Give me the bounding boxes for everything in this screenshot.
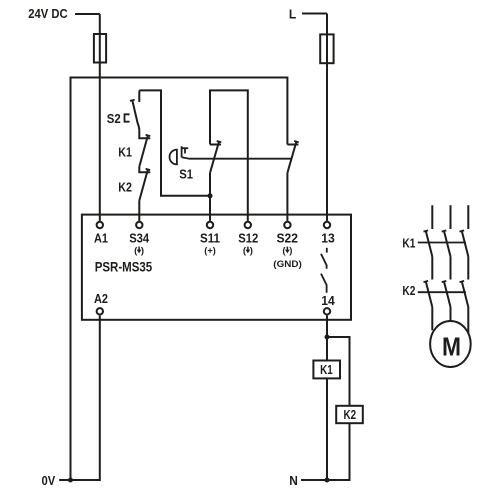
terminal S11 — [207, 222, 213, 228]
svg-text:): ) — [250, 246, 253, 257]
wire A2 to 0V — [59, 316, 100, 481]
svg-text:(+): (+) — [204, 246, 216, 257]
coil K2 — [336, 406, 363, 423]
svg-text:S34: S34 — [129, 231, 149, 245]
terminal A1 — [97, 222, 103, 228]
coil K1 — [313, 361, 340, 379]
wire 0V rail (left vertical + top horizontal to S22 branch) — [71, 78, 288, 481]
svg-text:(: ( — [243, 246, 247, 257]
svg-text:(: ( — [282, 246, 286, 257]
contact relay output 13-14 (two NO in series) — [321, 248, 327, 293]
svg-text:K1: K1 — [118, 145, 132, 160]
terminal S22 — [284, 222, 290, 228]
wire 14 down to K1 coil and N — [326, 316, 328, 481]
junction N — [325, 478, 330, 483]
svg-text:L: L — [289, 6, 296, 21]
wire phase lines middle — [432, 257, 468, 280]
contact K1 feedback NO — [139, 130, 150, 166]
wire S11-S12 jumper with S1 contact leg — [210, 90, 248, 221]
pushbutton actuator S1 — [170, 146, 189, 164]
relay PSR-MS35 box — [82, 215, 351, 320]
svg-text:A2: A2 — [94, 292, 108, 306]
terminal S34 — [136, 222, 142, 228]
svg-text:24V DC: 24V DC — [28, 6, 68, 21]
svg-text:): ) — [289, 246, 292, 257]
actuator E-stop bracket — [125, 114, 130, 121]
svg-text:K2: K2 — [344, 407, 357, 422]
contact S2 (E-stop NC) — [130, 90, 139, 130]
svg-text:S11: S11 — [200, 231, 220, 245]
junction S11 node — [208, 193, 213, 198]
wire L vertical to 13 — [326, 14, 328, 221]
terminal 13 — [324, 222, 330, 228]
svg-text:A1: A1 — [94, 231, 108, 245]
svg-text:PSR-MS35: PSR-MS35 — [95, 259, 153, 274]
svg-text:S1: S1 — [179, 167, 193, 182]
svg-text:K2: K2 — [118, 179, 132, 194]
contact K1 main poles — [424, 230, 469, 256]
contact K2 feedback NO — [139, 167, 150, 221]
contact S22 branch NO — [287, 141, 298, 221]
fuse F1 — [94, 34, 106, 63]
wire mechanical link S1 to contacts — [182, 157, 292, 158]
svg-text:): ) — [141, 246, 144, 257]
svg-text:M: M — [442, 334, 461, 362]
wire S2 chain top jumper to S11 node — [139, 90, 210, 195]
svg-text:14: 14 — [321, 294, 335, 308]
motor M — [430, 321, 471, 367]
svg-text:N: N — [289, 473, 298, 488]
svg-text:S2: S2 — [107, 111, 121, 126]
fuse F2 — [320, 34, 333, 63]
wire 24V feed horizontal — [75, 13, 100, 15]
wire 24V vertical to A1 — [99, 14, 101, 221]
svg-text:K1: K1 — [402, 235, 415, 250]
wire L feed horizontal — [302, 13, 327, 15]
wire phase lines top — [432, 205, 468, 229]
contact S1 (start button NO) — [210, 141, 221, 221]
wire branch to K2 coil — [327, 337, 350, 480]
svg-text:(GND): (GND) — [273, 259, 302, 270]
svg-text:0V: 0V — [42, 473, 56, 488]
svg-text:K1: K1 — [320, 362, 333, 377]
wire N — [301, 479, 327, 481]
terminal S12 — [245, 222, 251, 228]
svg-text:S12: S12 — [238, 231, 258, 245]
contact K2 main poles — [424, 281, 469, 307]
wire phase lines to motor — [432, 307, 468, 333]
junction 0V — [68, 478, 73, 483]
svg-text:S22: S22 — [277, 231, 299, 245]
svg-text:(: ( — [134, 246, 138, 257]
svg-text:13: 13 — [321, 231, 335, 245]
junction 14 branch — [325, 335, 330, 340]
svg-text:K2: K2 — [402, 283, 415, 298]
